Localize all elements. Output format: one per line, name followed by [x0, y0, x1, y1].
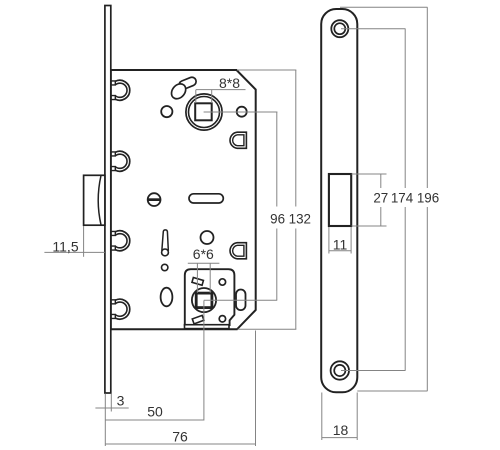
staple loop 4	[111, 299, 130, 319]
staple loop 3	[111, 231, 130, 251]
top screw extension line	[341, 28, 406, 30]
svg-text:50: 50	[147, 404, 163, 420]
WC plate foot	[185, 325, 230, 329]
dimension 11 window lines	[329, 227, 351, 254]
dimension line 174	[404, 29, 406, 371]
WC plate small circle bottom	[219, 316, 225, 322]
small circle left of spindle	[161, 106, 172, 117]
WC center line vertical	[203, 301, 205, 421]
svg-text:132: 132	[289, 212, 311, 227]
spindle hub outer circle	[186, 94, 222, 130]
dimension 11,5 lines	[44, 226, 104, 257]
small circle right of spindle	[237, 107, 247, 117]
dimension line 196	[426, 7, 428, 391]
svg-text:27: 27	[373, 191, 388, 206]
dimension line 50	[105, 419, 204, 421]
left oval hole	[161, 288, 173, 307]
faceplate right extension (3)	[110, 394, 112, 412]
latch window	[329, 174, 351, 226]
dimension line 27	[380, 174, 382, 226]
top screw hole inner	[334, 23, 345, 34]
teardrop pointer	[162, 230, 169, 256]
D-hole lower	[230, 243, 246, 259]
bottom screw hole outer	[331, 361, 349, 379]
svg-text:6*6: 6*6	[193, 246, 214, 262]
dimension line 3	[95, 407, 128, 409]
svg-text:76: 76	[172, 429, 188, 445]
lock body outline	[111, 70, 256, 329]
body top extension line	[237, 69, 296, 71]
latch bolt	[84, 175, 105, 225]
spindle square 8x8	[195, 103, 212, 120]
WC plate	[185, 269, 235, 325]
plate bottom extension line	[357, 390, 427, 392]
top screw hole outer	[331, 20, 348, 37]
staple loop 1	[111, 80, 130, 100]
WC square 6x6	[196, 293, 212, 308]
WC angled slot top	[192, 278, 203, 286]
body bottom extension line	[238, 328, 297, 330]
bottom screw hole inner	[334, 365, 345, 376]
faceplate (side view)	[105, 6, 111, 394]
D-hole upper	[230, 132, 246, 148]
dimension line 96	[276, 112, 278, 300]
screw head with slot	[148, 193, 161, 206]
dimension line 132	[295, 70, 297, 329]
dimension line 76	[105, 443, 255, 445]
spindle hub inner circle	[189, 97, 220, 128]
dimension 8*8 lines	[196, 90, 246, 103]
bottom screw extension line	[341, 370, 406, 372]
right side oval capsule	[236, 290, 246, 311]
horizontal slot capsule	[189, 194, 223, 203]
plate top extension line	[340, 6, 428, 8]
svg-text:18: 18	[333, 422, 349, 438]
front plate (right view)	[321, 9, 357, 392]
faceplate left extension line	[104, 394, 106, 447]
banana slot capsule arm	[178, 76, 198, 91]
svg-text:11,5: 11,5	[52, 239, 78, 255]
dimension 6*6 lines	[188, 263, 220, 293]
svg-text:96: 96	[270, 212, 285, 227]
svg-text:174: 174	[391, 191, 414, 206]
banana slot round lobe	[169, 81, 189, 102]
dimension 18 lines	[322, 393, 357, 441]
WC center line horizontal	[204, 299, 277, 301]
center circle	[201, 231, 214, 244]
svg-text:8*8: 8*8	[219, 75, 240, 91]
staple loop 2	[111, 151, 130, 171]
svg-text:196: 196	[417, 191, 439, 206]
spindle center line	[204, 111, 278, 113]
WC plate small circle top	[219, 279, 225, 285]
WC angled slot bottom	[192, 315, 204, 323]
body right extension line	[255, 331, 257, 447]
small circle below teardrop	[162, 264, 168, 270]
WC circle	[192, 288, 216, 312]
svg-text:3: 3	[117, 393, 125, 409]
svg-text:11: 11	[333, 237, 348, 253]
window 27 extension lines	[352, 174, 387, 226]
